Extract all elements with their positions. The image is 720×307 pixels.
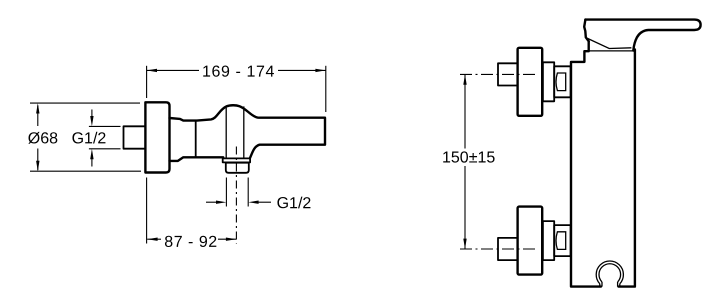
bottom union centerline (460, 248, 535, 250)
svg-text:G1/2: G1/2 (277, 195, 312, 212)
dimension 87-92: left arrow (147, 238, 157, 241)
bottom union nut window (556, 232, 566, 250)
svg-text:150±15: 150±15 (442, 150, 495, 167)
bottom union nut (554, 225, 570, 256)
top union centerline (460, 73, 535, 75)
shower hose holder ring outer arc (596, 261, 623, 284)
lever handle (585, 20, 700, 51)
dimension 87-92: dimension line (147, 238, 161, 240)
dimension G1/2 (outlet): left arrow line (206, 201, 217, 203)
dimension 169-174: right arrow (315, 69, 325, 72)
outlet centerline (dash-dot vertical) (235, 147, 237, 244)
outlet collar (223, 158, 250, 162)
shower hose holder ring inner arc (599, 264, 621, 282)
dimension 169-174: left arrow (147, 69, 157, 72)
dimension Ø68: extension line bottom (30, 170, 141, 172)
dimension G1/2 (outlet): right arrow line (259, 201, 272, 203)
dimension G1/2 (inlet): extension line top (89, 125, 121, 127)
bottom union cylinder (543, 221, 554, 260)
top union nut window (556, 73, 566, 91)
dimension Ø68: extension line top (30, 102, 140, 104)
dimension 87-92: extension line left (146, 178, 148, 244)
dimension 150±15: top arrow (463, 74, 466, 84)
dimension G1/2 (inlet): bottom arrow line (91, 159, 93, 167)
dimension 169-174: dimension line (147, 69, 199, 71)
bottom union stub G1/2 (498, 238, 518, 260)
mixer body upper profile (neck, cartridge dome, spout) (170, 105, 326, 158)
svg-text:Ø68: Ø68 (28, 130, 58, 147)
dimension G1/2 (inlet): extension line bottom (89, 148, 121, 150)
dimension Ø68: bottom arrow (36, 161, 39, 171)
top union nut (554, 66, 570, 97)
dimension 169-174: extension line left (146, 66, 148, 98)
outlet nut G1/2 (226, 163, 249, 173)
dimension Ø68: dimension line (37, 105, 39, 126)
top union stub G1/2 (498, 63, 518, 85)
svg-text:169 - 174: 169 - 174 (202, 64, 275, 81)
dimension 169-174: extension line right (325, 66, 327, 112)
cartridge seam (bold vertical) (195, 121, 197, 158)
escutcheon flange Ø68 (left view) (145, 102, 169, 172)
outlet tube seam right (thin vertical) (243, 106, 245, 158)
bottom union escutcheon (518, 207, 543, 275)
top union escutcheon (518, 48, 543, 116)
body slab outline left part (571, 41, 601, 286)
body top edge (587, 50, 634, 52)
ring feet (600, 282, 620, 287)
dimension G1/2 (outlet): extension line right (247, 178, 249, 207)
body slab outline right part (619, 50, 635, 287)
dimension 150±15: dimension line (464, 74, 466, 148)
dimension 150±15: bottom arrow (463, 239, 466, 249)
dimension G1/2 (inlet): top arrow line (91, 110, 93, 119)
svg-text:G1/2: G1/2 (72, 130, 107, 147)
outlet tube seam left (thin vertical) (225, 108, 227, 159)
svg-text:87 - 92: 87 - 92 (164, 234, 217, 251)
dimension Ø68: top arrow (36, 103, 39, 113)
dimension 87-92: right arrow (226, 238, 236, 241)
lever handle base left edge (584, 20, 589, 42)
mixer body lower profile (bottom edge) (170, 157, 224, 161)
dimension G1/2 (outlet): extension line left (225, 178, 227, 207)
lever handle skirt edge (thin diagonal) (588, 38, 632, 48)
wall union stub G1/2 (left view) (124, 126, 146, 148)
top union cylinder (543, 62, 554, 101)
